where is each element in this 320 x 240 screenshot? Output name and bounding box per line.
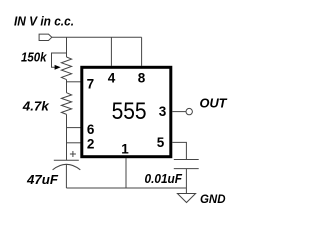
svg-text:GND: GND <box>200 192 226 206</box>
potentiometer 150k wiper arm wire <box>52 53 67 67</box>
capacitor 0.01uF top plate <box>174 159 199 161</box>
svg-text:6: 6 <box>87 122 95 137</box>
wire to pin 7 <box>67 81 81 83</box>
svg-text:47uF: 47uF <box>26 172 59 187</box>
ground symbol triangle <box>177 194 195 203</box>
input port terminal <box>39 34 52 40</box>
capacitor 47uF top plate <box>54 159 79 161</box>
svg-text:555: 555 <box>112 98 147 125</box>
capacitor 47uF curved bottom plate <box>53 164 81 170</box>
capacitor 47uF polarity plus sign <box>70 151 76 157</box>
svg-text:2: 2 <box>87 136 95 151</box>
svg-text:3: 3 <box>159 104 167 119</box>
wire to pin 6 <box>67 127 81 129</box>
wire pin 1 to ground rail <box>125 158 127 188</box>
svg-text:7: 7 <box>87 76 95 91</box>
wire junction between 150k and 4.7k <box>66 80 68 93</box>
svg-text:4: 4 <box>108 70 116 85</box>
wire pin 4 to top rail <box>110 37 112 66</box>
svg-text:4.7k: 4.7k <box>22 98 50 113</box>
wire top rail from port to pin 8 branch <box>52 36 142 38</box>
wire pin 8 to top rail <box>141 37 143 66</box>
wire from 4.7k down to 47uF capacitor <box>66 114 68 160</box>
svg-text:0.01uF: 0.01uF <box>145 171 183 186</box>
resistor 4.7k body <box>61 93 71 115</box>
svg-text:150k: 150k <box>21 49 47 64</box>
svg-text:8: 8 <box>138 70 146 85</box>
wire from 47uF to ground rail <box>65 165 67 189</box>
capacitor 0.01uF bottom plate <box>174 168 199 170</box>
output terminal circle <box>186 108 192 114</box>
wire 0.01uF to ground symbol <box>185 169 187 194</box>
IC 555 body <box>82 67 171 156</box>
wire bottom ground rail <box>66 187 186 189</box>
wire pin 5 to 0.01uF capacitor <box>172 142 186 159</box>
svg-text:IN V in c.c.: IN V in c.c. <box>14 13 74 28</box>
wire pin 3 to output terminal <box>172 111 186 113</box>
potentiometer 150k wiper arrowhead <box>55 65 61 70</box>
potentiometer 150k resistor body <box>61 57 71 80</box>
svg-text:1: 1 <box>121 142 129 157</box>
wire drop from rail to 150k resistor <box>66 37 68 57</box>
svg-text:OUT: OUT <box>200 96 228 110</box>
svg-text:5: 5 <box>157 135 165 150</box>
wire to pin 2 <box>67 142 81 144</box>
